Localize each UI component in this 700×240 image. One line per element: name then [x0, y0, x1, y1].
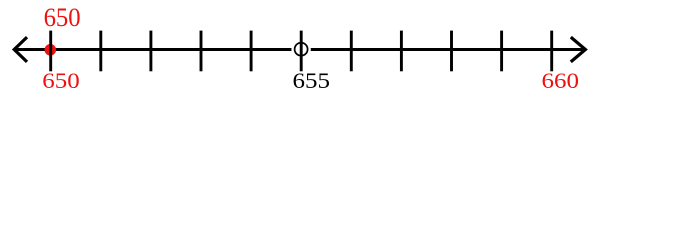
- tick 657: [400, 31, 403, 72]
- white gap halo around open circle at 655: [291, 40, 310, 59]
- tick 658: [450, 31, 453, 72]
- tick 660: [550, 31, 553, 72]
- tick 654: [250, 31, 253, 72]
- left arrowhead: [14, 37, 27, 62]
- tick 653: [200, 31, 203, 72]
- svg-text:655: 655: [292, 69, 329, 93]
- tick 656: [350, 31, 353, 72]
- svg-text:660: 660: [541, 69, 578, 93]
- tick 652: [149, 31, 152, 72]
- svg-text:650: 650: [44, 2, 81, 32]
- tick 650: [49, 31, 52, 72]
- right arrowhead: [571, 37, 586, 62]
- tick 659: [500, 31, 503, 72]
- tick 655: [300, 31, 303, 72]
- svg-text:650: 650: [42, 69, 79, 93]
- point marker: filled red dot at 650: [45, 44, 57, 56]
- tick 651: [99, 31, 102, 72]
- number line main axis: [14, 48, 586, 51]
- open circle marker at 655: [295, 43, 308, 56]
